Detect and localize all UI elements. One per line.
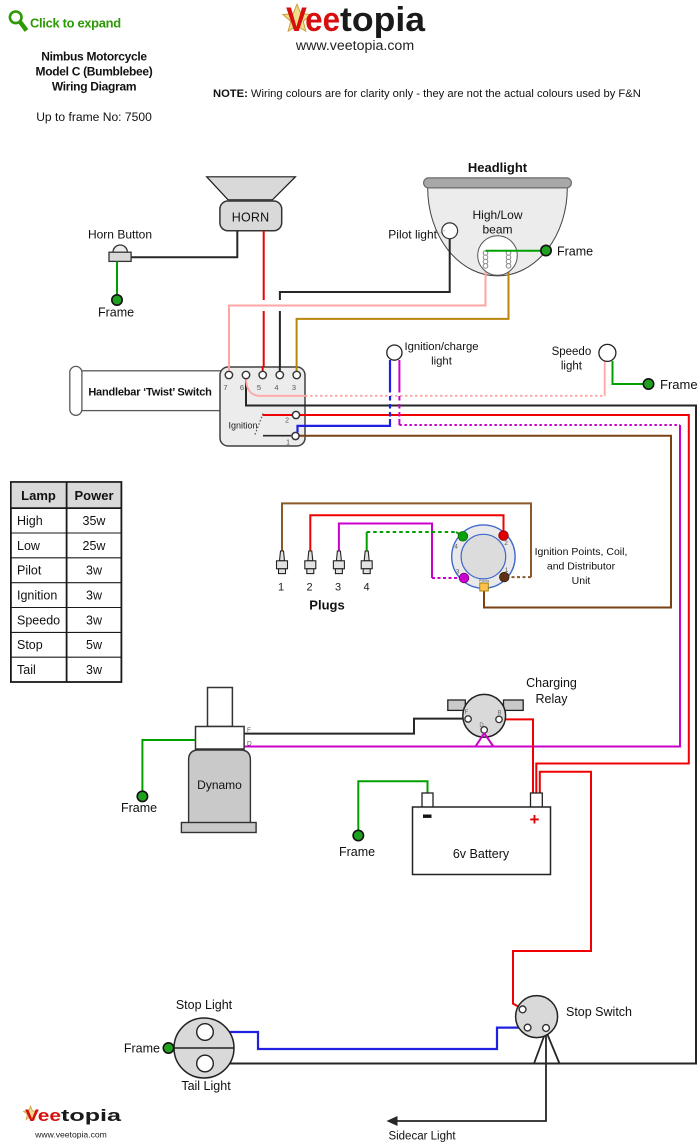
bottom logo text (25, 1106, 122, 1125)
stop light bulb (197, 1024, 214, 1041)
headlight rim (424, 178, 572, 188)
svg-text:Up to frame No: 7500: Up to frame No: 7500 (36, 110, 152, 124)
dynamo body (189, 750, 251, 823)
distributor cap numbers (454, 540, 509, 576)
lamp power table (11, 482, 122, 682)
battery minus terminal (422, 793, 433, 808)
svg-text:light: light (431, 356, 453, 368)
svg-text:light: light (561, 361, 583, 373)
distributor cap 3 magenta (459, 573, 469, 583)
distributor unit (452, 525, 515, 588)
distributor cap 4 green (458, 532, 468, 542)
stop switch legs black (534, 1031, 560, 1064)
title block (36, 50, 153, 94)
horn button frame dot (112, 295, 122, 305)
svg-text:Speedo: Speedo (17, 613, 60, 627)
svg-text:Frame: Frame (660, 377, 698, 392)
svg-text:Frame: Frame (557, 245, 593, 259)
svg-text:3: 3 (456, 569, 460, 576)
plug numbers (278, 582, 370, 594)
wire battery minus green to frame (358, 781, 427, 830)
wire black terminal 6 main loop (218, 379, 696, 1064)
wire dynamo green to frame (142, 740, 195, 791)
svg-text:Nimbus Motorcycle: Nimbus Motorcycle (41, 50, 147, 64)
pilot light (442, 223, 458, 239)
label: High/Low beam (472, 208, 522, 237)
wire pink terminal 6 to speedo light (inside box) (246, 379, 305, 396)
switch terminal 7 (225, 371, 232, 378)
svg-text:Speedo: Speedo (552, 346, 592, 358)
svg-text:F: F (247, 727, 251, 734)
relay terminal B (496, 716, 502, 722)
terminal number labels 7 6 5 4 3 (223, 383, 296, 392)
svg-text:Ignition: Ignition (228, 421, 257, 431)
spark plug 4 (361, 551, 372, 574)
distributor cap 2 red (499, 531, 509, 541)
svg-text:Ignition/charge: Ignition/charge (404, 341, 478, 353)
svg-text:6: 6 (240, 383, 244, 392)
svg-text:1: 1 (505, 567, 509, 574)
svg-text:Dynamo: Dynamo (197, 778, 242, 792)
svg-text:topia: topia (340, 1, 426, 39)
relay terminal D (481, 727, 487, 733)
spark plug 3 (333, 551, 344, 574)
svg-text:Vee: Vee (25, 1106, 61, 1125)
headlight frame dot (541, 245, 551, 255)
wire blue ignition light to terminal 1 (389, 360, 391, 388)
svg-text:3w: 3w (86, 663, 103, 677)
relay terminal F (465, 716, 471, 722)
svg-text:5: 5 (257, 383, 261, 392)
svg-text:topia: topia (61, 1106, 122, 1125)
switch terminal 1 (292, 432, 299, 439)
svg-text:Frame: Frame (98, 306, 134, 320)
svg-text:4: 4 (363, 582, 369, 594)
svg-text:Tail: Tail (17, 663, 36, 677)
tail light bulb (197, 1055, 214, 1072)
svg-text:Ignition Points, Coil,: Ignition Points, Coil, (535, 546, 628, 558)
battery minus sign (423, 815, 432, 818)
svg-text:Relay: Relay (536, 692, 569, 706)
svg-text:Unit: Unit (572, 575, 591, 587)
svg-text:D: D (479, 723, 484, 729)
speedo frame dot (643, 379, 653, 389)
svg-text:6v Battery: 6v Battery (453, 847, 510, 861)
wire brown terminal 1 to distributor points (299, 436, 671, 608)
ignition switch black contact (263, 435, 291, 437)
svg-text:4: 4 (454, 544, 458, 551)
svg-text:NOTE: Wiring colours are for c: NOTE: Wiring colours are for clarity onl… (213, 88, 641, 100)
spark plug 2 (305, 551, 316, 574)
svg-text:Model C (Bumblebee): Model C (Bumblebee) (36, 65, 153, 79)
dynamo base (181, 823, 256, 833)
beam coil left (483, 251, 488, 269)
svg-text:Horn Button: Horn Button (88, 228, 152, 242)
wire headlight beam gold to terminal 3 (297, 268, 509, 371)
svg-text:Frame: Frame (339, 845, 375, 859)
svg-text:D: D (247, 741, 252, 748)
svg-text:Plugs: Plugs (309, 598, 344, 613)
wire red plug 2 to distributor cap 2 (310, 515, 503, 551)
svg-text:Stop Light: Stop Light (176, 998, 233, 1012)
svg-text:7: 7 (223, 383, 227, 392)
bottom logo star (24, 1106, 38, 1119)
stop tail light body (174, 1018, 234, 1078)
svg-text:4: 4 (274, 383, 278, 392)
svg-text:Low: Low (17, 539, 41, 553)
svg-text:Handlebar ‘Twist’ Switch: Handlebar ‘Twist’ Switch (88, 387, 212, 399)
svg-text:www.veetopia.com: www.veetopia.com (295, 38, 414, 54)
stop switch body (516, 996, 558, 1038)
horn box HORN (220, 201, 282, 231)
wire horn red to terminal 5 (263, 231, 265, 300)
switch terminal 6 (242, 371, 249, 378)
svg-text:Pilot light: Pilot light (388, 228, 437, 242)
svg-text:Stop Switch: Stop Switch (566, 1005, 632, 1019)
switch box U1 (220, 367, 305, 446)
switch terminal 2 (292, 411, 299, 418)
wire red battery plus to stop switch (513, 772, 591, 1008)
wire blue stop switch to stop light (213, 1028, 524, 1049)
svg-text:Headlight: Headlight (468, 160, 528, 175)
svg-text:Sidecar Light: Sidecar Light (388, 1131, 456, 1143)
svg-text:B: B (497, 711, 501, 717)
svg-text:3: 3 (292, 383, 296, 392)
battery 6v (413, 807, 551, 875)
stop switch terminals (519, 1006, 526, 1013)
svg-text:High: High (17, 514, 43, 528)
wire stubs into switch terminals (228, 366, 230, 372)
horn funnel (207, 177, 296, 200)
wire red relay B to battery plus (503, 719, 534, 792)
battery frame dot (353, 830, 363, 840)
svg-text:High/Low: High/Low (472, 208, 522, 222)
svg-text:2: 2 (285, 418, 289, 425)
tail light frame dot (163, 1043, 173, 1053)
wire black dynamo F to relay F (244, 719, 464, 734)
wire speedo green to frame (613, 361, 644, 384)
svg-text:+: + (530, 810, 540, 829)
svg-text:Vee: Vee (286, 1, 340, 39)
dynamo neck (208, 688, 233, 727)
dynamo collar (196, 727, 245, 750)
ignition switch red contact (263, 414, 293, 416)
wire horn button green to frame (116, 262, 118, 296)
switch terminal 5 (259, 371, 266, 378)
label: Ignition Points Coil and Distributor Unit (535, 546, 628, 587)
charging relay body (463, 694, 506, 737)
svg-text:Charging: Charging (526, 676, 577, 690)
wire green plug 4 to distributor cap 4 (366, 532, 368, 551)
svg-text:35w: 35w (83, 514, 107, 528)
svg-text:Points: Points (479, 579, 490, 583)
magnifier icon (10, 11, 27, 30)
switch terminal 4 (276, 371, 283, 378)
headlight bowl (428, 188, 568, 276)
wire magenta ignition light to dynamo D (398, 360, 400, 388)
wire magenta relay D taps (476, 733, 494, 746)
logo star (283, 4, 311, 31)
svg-text:Pilot: Pilot (17, 564, 42, 578)
ignition switch lever (dotted) (255, 414, 263, 435)
svg-text:3: 3 (335, 582, 341, 594)
svg-text:HORN: HORN (232, 211, 270, 225)
svg-text:Ignition: Ignition (17, 589, 57, 603)
wire headlight green to frame (486, 250, 542, 252)
ignition/charge light (387, 345, 402, 360)
wire pink dotted to speedo light (305, 395, 605, 397)
charging relay tabs (448, 700, 466, 710)
switch terminal 3 (293, 371, 300, 378)
relay terminal labels (465, 710, 502, 729)
svg-text:3w: 3w (86, 589, 103, 603)
svg-text:beam: beam (482, 223, 512, 237)
stop tail light midline (174, 1047, 234, 1049)
wire brown plug 1 to distributor cap 1 (282, 503, 531, 577)
svg-text:Click to expand: Click to expand (30, 16, 121, 31)
svg-text:2: 2 (504, 540, 508, 547)
svg-text:Wiring Diagram: Wiring Diagram (52, 80, 136, 94)
distributor cap 1 brown (500, 572, 510, 582)
speedo light (599, 344, 616, 361)
svg-text:Frame: Frame (121, 801, 157, 815)
logo text Veetopia (286, 1, 426, 39)
handlebar grip (70, 366, 222, 415)
svg-text:3w: 3w (86, 564, 103, 578)
wire pilot light black to terminal 4 (280, 239, 450, 300)
svg-text:1: 1 (286, 440, 290, 447)
wire black sidecar light with arrow (395, 1031, 546, 1121)
svg-text:Lamp: Lamp (21, 488, 56, 503)
wire headlight beam pink to terminal 7 (229, 268, 486, 371)
wire red terminal 2 to right edge to battery plus (300, 415, 689, 793)
svg-text:25w: 25w (83, 539, 107, 553)
beam coil right (506, 251, 511, 269)
spark plug 1 (277, 551, 288, 574)
dynamo frame dot (137, 791, 147, 801)
battery plus terminal (531, 793, 543, 808)
svg-text:F: F (465, 710, 469, 716)
svg-text:Tail Light: Tail Light (181, 1079, 231, 1093)
svg-text:Frame: Frame (124, 1042, 160, 1056)
wire magenta plug 3 to distributor cap 3 (339, 524, 432, 579)
svg-text:2: 2 (306, 582, 312, 594)
svg-text:and Distributor: and Distributor (547, 561, 616, 573)
svg-text:www.veetopia.com: www.veetopia.com (34, 1130, 107, 1140)
svg-text:3w: 3w (86, 613, 103, 627)
svg-text:Power: Power (74, 488, 113, 503)
high/low beam bulb (478, 236, 518, 276)
svg-text:Stop: Stop (17, 638, 43, 652)
wire horn black to horn button (131, 231, 237, 257)
svg-text:5w: 5w (86, 638, 103, 652)
svg-text:1: 1 (278, 582, 284, 594)
horn button (109, 245, 131, 261)
